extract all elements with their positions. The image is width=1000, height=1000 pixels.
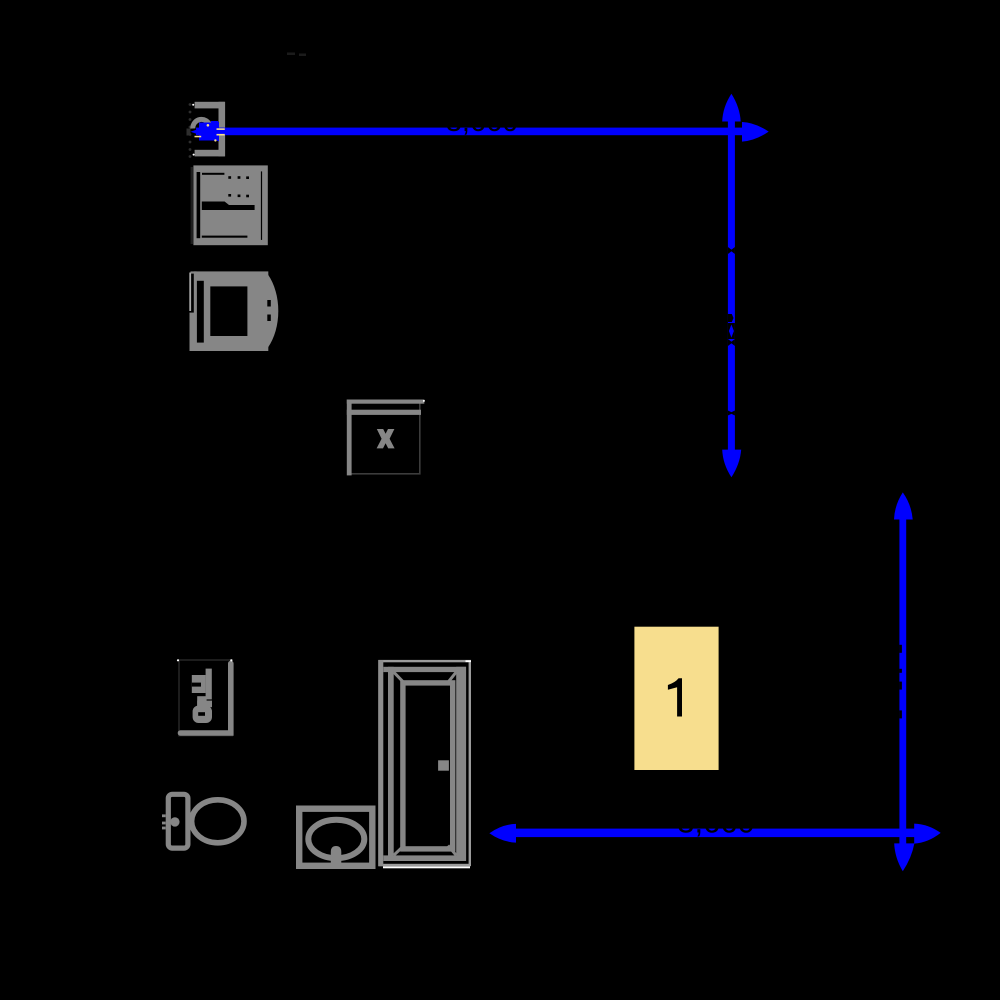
svg-text:3,660: 3,660 (446, 106, 519, 138)
white dot top right (466, 660, 472, 662)
up arrowhead (894, 492, 913, 519)
vertical dimension text occlusions (black glyph bites) (728, 247, 735, 416)
frame top bar (383, 667, 466, 672)
tank hinge ticks (162, 814, 166, 817)
outer thin frame (380, 661, 470, 865)
stove (191, 165, 268, 245)
faucet stub (331, 846, 342, 868)
up arrowhead (722, 94, 741, 122)
right vertical dimension arrow (lower) (894, 492, 914, 871)
basin oval (308, 820, 364, 858)
rotated label glyph O (193, 696, 212, 723)
right arrowhead (742, 122, 769, 142)
right line (261, 171, 262, 240)
white dot (423, 400, 425, 402)
gray second bar (347, 410, 421, 415)
bottom line (202, 236, 248, 238)
bathroom sink (299, 809, 372, 868)
fridge handle ticks (267, 300, 271, 307)
fridge door-swing bulge (268, 275, 278, 348)
bowl (192, 800, 244, 843)
yellow specks near sink arrowhead (195, 124, 225, 142)
outer left thick edge (378, 660, 383, 866)
right vertical dimension arrow (upper) (722, 94, 741, 478)
bottom width dimension arrow (489, 824, 940, 844)
dark outline (179, 660, 232, 736)
sink faucet arc (193, 119, 210, 128)
box with x (appliance) (347, 400, 425, 476)
white corner dots (177, 659, 179, 661)
top line (202, 173, 224, 175)
refrigerator (189, 271, 278, 351)
kitchen sink (187, 102, 226, 158)
left arrowhead (489, 824, 516, 843)
gray corner L (181, 664, 231, 734)
flush button (170, 817, 179, 826)
room 1 label box (634, 627, 718, 770)
right arrowhead (914, 824, 941, 844)
sink frame (195, 102, 226, 157)
room label 1 (668, 678, 682, 716)
fridge body (194, 271, 268, 351)
vertical dimension text 2 occlusions (left-edge glyph bites) (899, 645, 902, 719)
left slot (197, 172, 201, 238)
faint wall marks top (287, 53, 306, 57)
door panel (403, 683, 453, 849)
water heater (177, 659, 233, 735)
fridge light sliver (189, 273, 191, 312)
down arrowhead (722, 450, 741, 478)
gray left bar (347, 400, 352, 476)
counter square (299, 809, 372, 866)
wall dots left of sink (187, 103, 192, 158)
tank (168, 794, 188, 848)
wall line left of stove (191, 167, 193, 244)
left arrowhead over sink (191, 122, 220, 141)
door (378, 660, 471, 868)
door knob (438, 760, 449, 770)
white corner dots (192, 104, 194, 106)
stove body (193, 165, 267, 245)
handle band (202, 202, 255, 211)
svg-text:3,660: 3,660 (677, 804, 755, 839)
fridge inner door square (210, 286, 247, 336)
bevel diagonals (394, 672, 457, 855)
toilet (162, 794, 244, 848)
rotated label glyph W (192, 669, 212, 700)
frame bottom bar (383, 855, 466, 861)
top width dimension arrow (191, 121, 769, 142)
down arrowhead (894, 843, 914, 871)
frame left bar (388, 667, 394, 861)
x label (377, 429, 395, 448)
burner knobs (228, 176, 231, 179)
white line under door (383, 866, 470, 868)
fridge left black bar (197, 281, 204, 343)
frame right bar (456, 667, 466, 861)
dark outline (348, 401, 420, 474)
gray top bar (347, 400, 425, 404)
blue counter window inside glyph cut (729, 325, 734, 338)
